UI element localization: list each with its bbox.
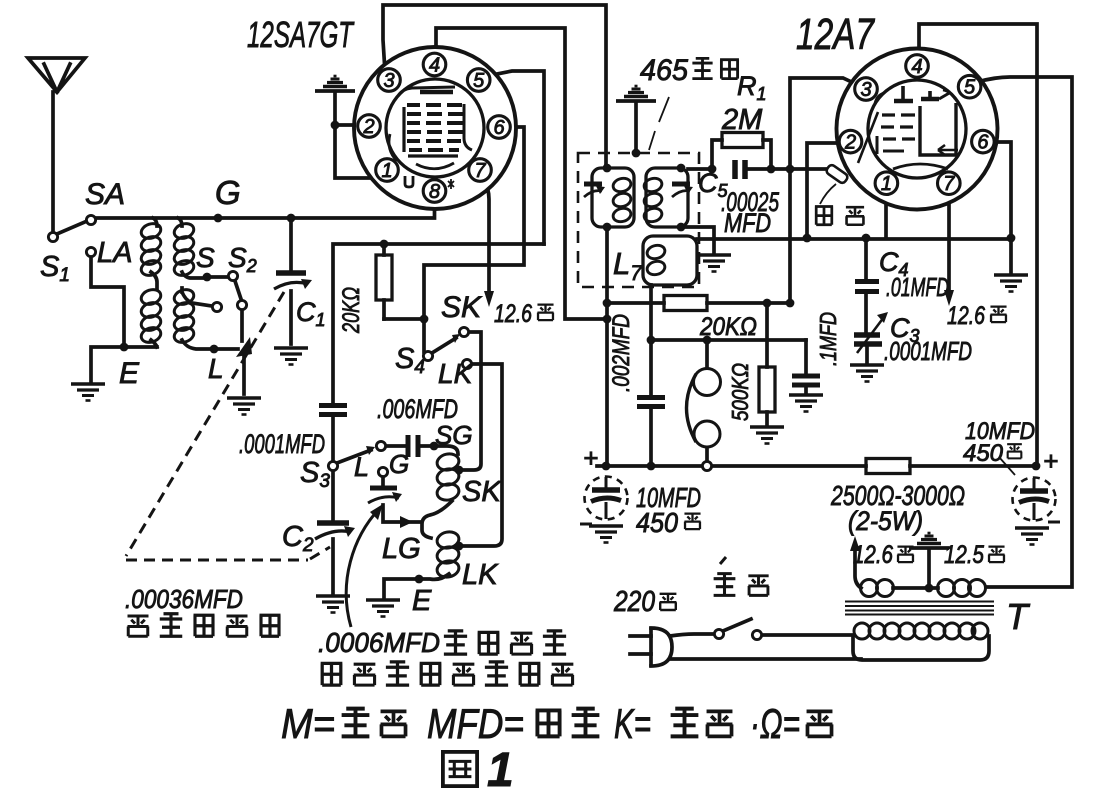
svg-text:T: T xyxy=(1006,596,1031,637)
svg-text:6: 6 xyxy=(977,132,989,154)
svg-text:M=: M= xyxy=(281,700,335,747)
svg-text:6: 6 xyxy=(493,117,505,139)
svg-text:1: 1 xyxy=(881,173,892,195)
svg-text:2M: 2M xyxy=(721,104,763,136)
svg-text:465: 465 xyxy=(640,54,688,87)
svg-text:E: E xyxy=(119,357,140,390)
svg-text:12.6: 12.6 xyxy=(853,541,893,569)
svg-text:.0001MFD: .0001MFD xyxy=(239,429,325,459)
svg-text:K=: K= xyxy=(614,700,651,747)
svg-text:C1: C1 xyxy=(296,297,326,330)
svg-text:450: 450 xyxy=(963,440,1004,467)
svg-text:.002MFD: .002MFD xyxy=(608,314,635,392)
svg-text:3: 3 xyxy=(860,79,871,101)
svg-text:12.6: 12.6 xyxy=(494,300,532,328)
svg-text:1: 1 xyxy=(487,744,514,793)
svg-text:500KΩ: 500KΩ xyxy=(727,363,753,421)
svg-text:20KΩ: 20KΩ xyxy=(699,313,757,341)
svg-text:4: 4 xyxy=(429,55,440,77)
svg-text:S2: S2 xyxy=(228,242,257,276)
svg-text:S1: S1 xyxy=(40,251,70,286)
svg-text:C2: C2 xyxy=(282,521,314,556)
svg-text:.1MFD: .1MFD xyxy=(815,312,841,366)
svg-text:E: E xyxy=(412,585,432,617)
svg-text:12SA7GT: 12SA7GT xyxy=(247,14,355,55)
svg-text:S: S xyxy=(196,242,215,273)
svg-text:5: 5 xyxy=(964,77,976,99)
svg-text:G: G xyxy=(215,174,241,211)
svg-text:450: 450 xyxy=(636,507,678,538)
svg-text:L: L xyxy=(354,452,369,482)
svg-text:.006MFD: .006MFD xyxy=(377,394,458,424)
svg-text:SG: SG xyxy=(435,420,473,450)
svg-text:+: + xyxy=(583,443,598,473)
svg-text:SK: SK xyxy=(441,291,483,324)
svg-text:SA: SA xyxy=(85,178,125,211)
svg-text:LK: LK xyxy=(438,358,474,389)
svg-text:LK: LK xyxy=(462,559,499,591)
svg-text:2: 2 xyxy=(844,132,856,154)
svg-text:(2-5W): (2-5W) xyxy=(848,506,923,536)
svg-text:.00036MFD: .00036MFD xyxy=(125,584,243,614)
svg-text:R1: R1 xyxy=(737,71,767,104)
svg-text:SK: SK xyxy=(462,476,502,508)
svg-text:.0006MFD: .0006MFD xyxy=(318,627,440,658)
svg-text:3: 3 xyxy=(383,70,394,92)
svg-text:7: 7 xyxy=(943,173,955,195)
svg-text:LG: LG xyxy=(382,533,421,565)
svg-text:12.6: 12.6 xyxy=(947,302,985,330)
svg-text:MFD: MFD xyxy=(724,208,771,238)
svg-text:L: L xyxy=(208,353,224,384)
svg-text:5: 5 xyxy=(473,70,485,92)
svg-text:+: + xyxy=(1043,446,1058,476)
svg-text:1: 1 xyxy=(381,160,392,182)
svg-text:7: 7 xyxy=(474,160,486,182)
svg-text:.01MFD: .01MFD xyxy=(886,272,949,302)
svg-text:S4: S4 xyxy=(395,343,425,378)
svg-text:LA: LA xyxy=(97,237,132,269)
svg-text:8: 8 xyxy=(429,181,440,203)
svg-text:12A7: 12A7 xyxy=(796,10,875,59)
svg-text:220: 220 xyxy=(613,586,655,618)
svg-text:S3: S3 xyxy=(300,457,330,492)
svg-text:2: 2 xyxy=(362,116,374,138)
svg-text:·Ω=: ·Ω= xyxy=(750,700,800,747)
svg-text:G: G xyxy=(389,449,409,479)
svg-text:L7: L7 xyxy=(613,246,643,285)
svg-text:20KΩ: 20KΩ xyxy=(338,287,365,334)
svg-text:.0001MFD: .0001MFD xyxy=(884,336,972,366)
svg-text:12.5: 12.5 xyxy=(944,541,984,569)
svg-text:MFD=: MFD= xyxy=(427,700,524,747)
svg-text:4: 4 xyxy=(911,56,922,78)
